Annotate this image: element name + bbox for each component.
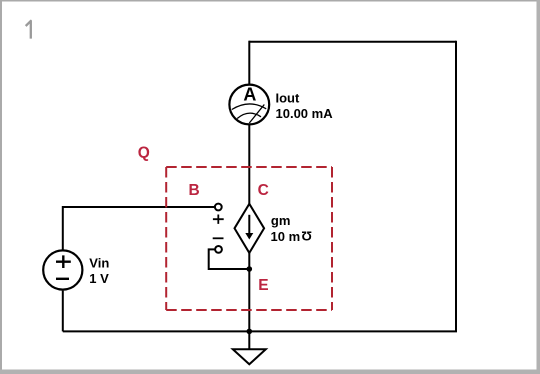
svg-text:Vin: Vin [89,256,109,271]
wire bottom rail [63,330,457,332]
wire right rail [455,41,457,332]
label Iout value [276,91,334,122]
sheet number 1 [26,21,31,39]
svg-text:1 V: 1 V [89,271,109,286]
ammeter AM1 [229,85,269,125]
wire Vin bottom to bottom rail [62,291,64,332]
junction bottom rail to ground [247,329,253,335]
wire VCCS bottom through node E to bottom rail [248,252,250,332]
node E label [258,277,268,294]
wire top rail to ammeter [248,41,250,84]
terminal node B (+ control input) [213,204,224,224]
node B label [189,182,200,199]
wire Vin top to node B [63,207,215,250]
svg-text:Q: Q [138,144,150,161]
ground [233,331,266,364]
svg-text:Iout: Iout [276,91,300,106]
label Vin value [89,256,109,287]
wire top from ammeter node to right rail [249,41,456,43]
label gm value [271,213,312,244]
VCCS gm (diamond dependent current source) [235,204,265,253]
terminal minus control input [213,238,224,253]
svg-text:10 m: 10 m [271,229,301,244]
voltage source Vin [43,250,82,289]
node C label [258,182,269,199]
junction node E [247,266,253,272]
wire ammeter to VCCS top (node C) [248,125,250,205]
svg-text:C: C [258,182,269,199]
svg-text:10.00 mA: 10.00 mA [276,106,334,121]
svg-text:Ω: Ω [301,228,311,243]
svg-text:A: A [243,85,256,105]
svg-text:gm: gm [271,213,291,228]
svg-text:E: E [258,277,268,294]
transistor model box Q (dashed) [166,167,332,310]
label Q [138,144,150,161]
wire minus control terminal to node E [209,249,250,269]
svg-text:B: B [189,182,200,199]
